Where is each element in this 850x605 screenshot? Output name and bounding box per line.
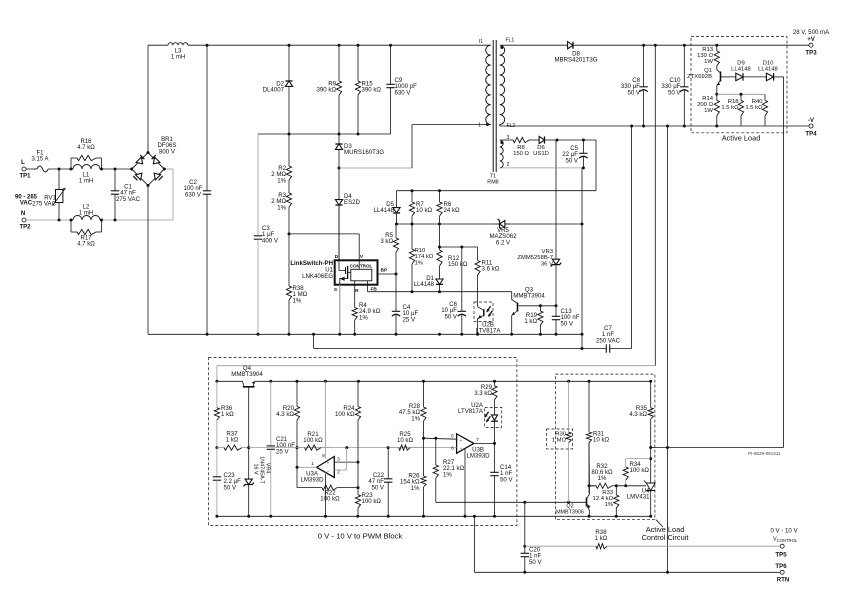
wire bias top to corner bbox=[557, 139, 596, 141]
svg-text:50 V: 50 V bbox=[371, 484, 384, 491]
wire FB line bbox=[368, 291, 512, 293]
label C4 bbox=[403, 304, 419, 323]
svg-text:1 MΩ: 1 MΩ bbox=[552, 438, 567, 444]
svg-text:-V: -V bbox=[808, 117, 815, 124]
wire internal rail left bbox=[217, 380, 243, 382]
svg-text:N: N bbox=[21, 210, 26, 217]
label T1 pin I1 bbox=[479, 39, 483, 45]
optocoupler U2A box bbox=[485, 407, 502, 427]
svg-text:5: 5 bbox=[451, 434, 454, 440]
svg-text:4.3 kΩ: 4.3 kΩ bbox=[276, 411, 294, 418]
svg-text:VR4: VR4 bbox=[265, 463, 271, 474]
resistor R11 bbox=[475, 247, 480, 302]
svg-text:800 V: 800 V bbox=[159, 148, 176, 155]
wire -V line bbox=[500, 125, 811, 127]
wire U3B output bbox=[474, 442, 495, 444]
label C2 bbox=[184, 179, 203, 198]
label U1 ref bbox=[325, 267, 333, 274]
pin label R bbox=[355, 288, 359, 294]
label BR1 bbox=[158, 136, 177, 155]
junction dots clamp line bbox=[288, 133, 360, 136]
svg-text:US1D: US1D bbox=[533, 151, 549, 157]
svg-text:BP: BP bbox=[381, 268, 388, 274]
label input voltage bbox=[15, 195, 38, 207]
svg-text:1: 1 bbox=[311, 461, 314, 467]
svg-text:2: 2 bbox=[507, 162, 510, 168]
svg-text:−: − bbox=[327, 469, 330, 474]
svg-text:10 kΩ: 10 kΩ bbox=[397, 437, 414, 444]
wire Vcontrol line left bbox=[525, 545, 595, 547]
junction R20 bottom bbox=[296, 446, 299, 449]
label R36 bbox=[221, 405, 234, 418]
junction Q1 emitter node bbox=[715, 93, 718, 96]
diode D1 bbox=[436, 278, 443, 292]
branch left vertical L2-R17 bbox=[70, 220, 72, 232]
svg-text:3.15 A: 3.15 A bbox=[31, 157, 48, 163]
svg-text:10 kΩ: 10 kΩ bbox=[416, 207, 433, 214]
resistor R7 bbox=[409, 191, 414, 224]
label R4 bbox=[359, 302, 381, 321]
svg-text:4.7 kΩ: 4.7 kΩ bbox=[77, 242, 95, 248]
resistor R21 bbox=[297, 445, 330, 450]
label R37 bbox=[226, 431, 239, 444]
bridge rectifier BR1 bbox=[132, 153, 165, 186]
label 0-10V bbox=[770, 528, 798, 535]
svg-text:275 VAC: 275 VAC bbox=[32, 201, 57, 208]
svg-text:4.3 kΩ: 4.3 kΩ bbox=[629, 411, 647, 418]
wire L2 left stub bbox=[71, 219, 73, 221]
wire V pin vertical bbox=[358, 234, 360, 260]
label C3 bbox=[262, 225, 279, 244]
label R9 bbox=[317, 81, 337, 94]
label R22 bbox=[320, 490, 340, 503]
label C10 bbox=[661, 77, 681, 96]
svg-text:16 V: 16 V bbox=[253, 463, 259, 474]
label U3A bbox=[300, 471, 324, 484]
wire R32 node line bbox=[589, 485, 596, 487]
svg-text:275 VAC: 275 VAC bbox=[116, 196, 141, 203]
junction dots sense top line bbox=[411, 189, 442, 192]
wire U3B pin5 line bbox=[424, 438, 457, 439]
label R17 bbox=[77, 236, 95, 248]
label VR3 bbox=[517, 249, 553, 267]
svg-text:400 V: 400 V bbox=[262, 237, 279, 244]
branch right vertical R16-L1 bbox=[101, 158, 103, 169]
wire ground to RTN drop bbox=[473, 516, 475, 572]
svg-text:TP6: TP6 bbox=[775, 563, 787, 570]
svg-text:28 V, 500 mA: 28 V, 500 mA bbox=[793, 29, 830, 36]
junction dots +V line bbox=[642, 44, 718, 47]
svg-text:ZTX692B: ZTX692B bbox=[687, 74, 712, 80]
svg-text:7: 7 bbox=[476, 437, 479, 443]
diode D4 bbox=[335, 168, 342, 260]
svg-text:250 VAC: 250 VAC bbox=[596, 337, 621, 344]
wire U1 FB pin drop bbox=[367, 281, 369, 292]
wire pin2 return vertical bbox=[581, 168, 583, 349]
label U3B pin 6 bbox=[451, 446, 454, 452]
wire R6 R12 link bbox=[439, 224, 441, 247]
wire U3A V+ stub bbox=[325, 381, 327, 459]
svg-text:ES2D: ES2D bbox=[344, 199, 361, 206]
label T1 FL2 bbox=[507, 123, 516, 129]
label Vcontrol bbox=[773, 537, 798, 544]
wire R20 to R22 line bbox=[296, 448, 298, 488]
zener VR3 bbox=[551, 255, 561, 306]
svg-text:36 V: 36 V bbox=[541, 261, 553, 267]
label L bbox=[21, 159, 25, 166]
label R10 bbox=[415, 248, 434, 266]
resistor R19 bbox=[538, 306, 543, 335]
test point TP2 bbox=[22, 218, 26, 222]
label D3 bbox=[344, 143, 384, 156]
junction R33 top bbox=[615, 484, 618, 487]
svg-text:6: 6 bbox=[451, 446, 454, 452]
svg-text:CONTROL: CONTROL bbox=[350, 264, 373, 269]
junction R18 top bbox=[740, 93, 743, 96]
diode D8 bbox=[567, 42, 811, 49]
label 28V 500mA bbox=[793, 29, 830, 36]
wire top rail L3 to transformer bbox=[188, 44, 491, 46]
svg-text:1%: 1% bbox=[415, 260, 424, 266]
label CONTROL bbox=[350, 264, 373, 269]
svg-text:3.3 kΩ: 3.3 kΩ bbox=[474, 390, 492, 397]
wire U1 S pin to rail bbox=[339, 285, 341, 335]
wire FB corner to Q3 collector bbox=[511, 292, 513, 300]
junction pin5 tap bbox=[422, 437, 425, 440]
svg-text:1W: 1W bbox=[704, 108, 713, 114]
svg-text:LTV817A: LTV817A bbox=[476, 328, 502, 335]
label U1 part bbox=[302, 273, 333, 280]
svg-text:1: 1 bbox=[478, 123, 481, 129]
label U3A pin 3 bbox=[337, 457, 340, 463]
optocoupler U2B box bbox=[474, 302, 493, 322]
svg-text:8: 8 bbox=[322, 453, 325, 459]
resistor R30 optional box bbox=[547, 429, 573, 449]
label U1 family bbox=[290, 260, 333, 267]
label TP5 bbox=[775, 552, 787, 559]
wire stub bridge right bbox=[164, 168, 173, 170]
label R12 bbox=[448, 255, 468, 268]
label C7 bbox=[596, 325, 621, 344]
label Active Load bbox=[722, 134, 761, 143]
wire hysteresis link bbox=[357, 462, 359, 488]
svg-text:1%: 1% bbox=[604, 502, 613, 508]
svg-text:150 Ω: 150 Ω bbox=[513, 151, 529, 157]
transistor Q2 bbox=[587, 494, 591, 511]
wire fuse to node bbox=[50, 168, 71, 170]
svg-text:100 kΩ: 100 kΩ bbox=[362, 498, 382, 505]
svg-text:50 V: 50 V bbox=[224, 484, 237, 491]
junction N-line RV1 bbox=[58, 219, 61, 222]
junction dots FB line bbox=[411, 290, 442, 293]
active load control box bbox=[555, 374, 655, 520]
junction dots top rail bbox=[206, 44, 393, 47]
capacitor C14 bbox=[490, 443, 498, 516]
svg-text:1%: 1% bbox=[277, 177, 286, 184]
resistor R38 primary bbox=[286, 234, 291, 334]
branch right vertical L2-R17 bbox=[101, 220, 103, 232]
wire L1 right stub bbox=[100, 168, 102, 170]
label Q3 bbox=[513, 287, 545, 300]
capacitor C21 bbox=[267, 381, 275, 516]
svg-text:3.6 kΩ: 3.6 kΩ bbox=[482, 266, 500, 273]
transistor Q4 bbox=[243, 381, 255, 392]
wire U1 D pin bbox=[338, 205, 340, 260]
wire U4 cathode bbox=[650, 448, 652, 484]
svg-text:50 V: 50 V bbox=[500, 476, 513, 483]
resistor R18 bbox=[738, 94, 743, 126]
svg-text:F1: F1 bbox=[36, 151, 44, 157]
svg-text:24 kΩ: 24 kΩ bbox=[444, 207, 461, 214]
wire Q1 emitter bbox=[716, 86, 718, 95]
junction dots -V line bbox=[630, 125, 718, 128]
wire R11 top line bbox=[440, 246, 478, 248]
label R38 primary bbox=[293, 285, 308, 304]
wire FL2 to primary bbox=[412, 124, 491, 126]
junction R23 top bbox=[357, 486, 360, 489]
junction dots base line bbox=[523, 501, 570, 504]
svg-text:LTV817A: LTV817A bbox=[458, 408, 484, 415]
svg-text:390 kΩ: 390 kΩ bbox=[317, 87, 337, 94]
svg-text:RM8: RM8 bbox=[487, 180, 498, 186]
wire U3A pin2 line bbox=[334, 469, 346, 471]
svg-text:1 mH: 1 mH bbox=[171, 55, 185, 61]
junction dots L2 branch bbox=[70, 219, 104, 222]
label R30 bbox=[552, 432, 567, 444]
wire Q2 collector bbox=[588, 443, 591, 495]
svg-text:TP2: TP2 bbox=[19, 225, 31, 231]
label C13 bbox=[561, 308, 580, 327]
junction L-line RV1 bbox=[58, 168, 61, 171]
label R27 bbox=[443, 459, 465, 478]
label TP3 bbox=[805, 50, 817, 57]
resistor R32 bbox=[589, 483, 616, 488]
svg-text:50 V: 50 V bbox=[565, 157, 578, 164]
label R3 bbox=[271, 192, 286, 211]
svg-text:ZMM5258B-7: ZMM5258B-7 bbox=[517, 255, 553, 261]
test point TP4 bbox=[809, 124, 813, 128]
resistor R25 bbox=[388, 445, 423, 450]
wire R27 bottom line bbox=[436, 501, 587, 503]
capacitor C8 bbox=[639, 45, 647, 126]
wire RTN line bbox=[474, 571, 780, 573]
label U3B pin 7 bbox=[476, 437, 479, 443]
label U4 bbox=[627, 488, 650, 501]
label R31 bbox=[593, 431, 610, 444]
label D10 bbox=[758, 61, 778, 73]
capacitor C1 bbox=[111, 169, 119, 220]
label R14 bbox=[697, 96, 714, 114]
resistor R30 bbox=[566, 381, 571, 502]
junction C5 bottom bbox=[582, 166, 585, 169]
wire R32 line to U4 ref bbox=[616, 485, 646, 487]
wire bias corner down bbox=[595, 140, 597, 191]
svg-text:100 kΩ: 100 kΩ bbox=[630, 467, 650, 474]
label R8 bbox=[513, 145, 529, 157]
label R40 bbox=[745, 99, 763, 111]
label R25 bbox=[397, 431, 414, 444]
transformer T1 core bbox=[493, 40, 496, 172]
wire FL2 pin stub bbox=[499, 125, 501, 127]
svg-text:MBRS4201T3G: MBRS4201T3G bbox=[554, 57, 597, 64]
varistor RV1 bbox=[53, 169, 66, 220]
wire Q2 emitter bbox=[588, 511, 591, 517]
pin label V bbox=[360, 254, 364, 260]
svg-text:TP1: TP1 bbox=[19, 174, 31, 180]
svg-text:1%: 1% bbox=[293, 297, 302, 304]
capacitor C13 bbox=[552, 306, 560, 335]
label D8 bbox=[554, 51, 597, 64]
svg-text:LL4148: LL4148 bbox=[374, 207, 395, 214]
svg-text:1.5 kΩ: 1.5 kΩ bbox=[745, 105, 763, 111]
junction BP node bbox=[395, 273, 398, 276]
wire L2 right stub bbox=[100, 219, 102, 221]
wire D10 to control drop bbox=[783, 77, 785, 448]
svg-text:1 kΩ: 1 kΩ bbox=[221, 411, 234, 418]
inductor L3 bbox=[168, 43, 188, 46]
test point TP3 bbox=[809, 43, 813, 47]
svg-text:VR3: VR3 bbox=[542, 249, 554, 255]
wire primary return rail bbox=[148, 333, 582, 335]
svg-text:50 V: 50 V bbox=[668, 89, 681, 96]
svg-text:1.5 kΩ: 1.5 kΩ bbox=[721, 105, 739, 111]
wire internal ground rail bbox=[217, 515, 651, 517]
label T1 pin 2 bbox=[507, 162, 510, 168]
svg-text:VCONTROL: VCONTROL bbox=[773, 537, 798, 544]
label RV1 bbox=[32, 195, 57, 208]
junction dots control line bbox=[345, 446, 389, 449]
junction R37 left bbox=[215, 446, 218, 449]
junction C1 top bbox=[114, 168, 117, 171]
label Q1 bbox=[687, 68, 712, 80]
label R6 bbox=[444, 201, 461, 214]
wire L1 left stub bbox=[71, 168, 73, 170]
svg-text:+: + bbox=[460, 438, 463, 443]
label VR4 volt bbox=[253, 463, 259, 474]
label U2B bbox=[476, 322, 502, 335]
resistor R24 bbox=[355, 381, 360, 462]
junction C20 bottom bbox=[523, 571, 526, 574]
pin label S bbox=[334, 287, 338, 293]
label T1 pin 1 bbox=[478, 123, 481, 129]
label U2A bbox=[458, 402, 484, 415]
label R11 bbox=[482, 260, 500, 273]
resistor R34 bbox=[623, 459, 628, 486]
resistor R40 bbox=[762, 94, 767, 126]
label C14 bbox=[500, 464, 513, 483]
inductor L2 bbox=[73, 216, 100, 221]
wire U2A cathode to output bbox=[494, 427, 496, 443]
capacitor C9 bbox=[386, 45, 394, 134]
junction dots bridge vertices bbox=[130, 151, 166, 187]
svg-text:0 V - 10 V to PWM Block: 0 V - 10 V to PWM Block bbox=[318, 532, 403, 541]
pin label BP bbox=[381, 268, 388, 274]
wire PWM supply gray line bbox=[217, 365, 655, 367]
svg-text:LM393D: LM393D bbox=[466, 453, 490, 460]
label R15 bbox=[362, 81, 382, 94]
resistor R20 bbox=[294, 381, 299, 447]
wire clamp node line bbox=[258, 133, 391, 135]
junction T1 FL1 dot bbox=[500, 46, 503, 49]
wire control drop bbox=[524, 502, 526, 546]
svg-text:50 V: 50 V bbox=[561, 320, 574, 327]
svg-text:R16: R16 bbox=[80, 139, 92, 145]
test point TP6 bbox=[780, 570, 784, 574]
wire bias sense top line bbox=[397, 190, 597, 192]
resistor R5 bbox=[393, 224, 398, 274]
label D1 bbox=[414, 275, 435, 288]
svg-text:MMBT3904: MMBT3904 bbox=[513, 293, 545, 300]
label R29 bbox=[474, 384, 492, 397]
svg-text:4.7 kΩ: 4.7 kΩ bbox=[77, 145, 95, 151]
resistor R14 bbox=[714, 94, 719, 126]
diode D9 bbox=[736, 73, 767, 81]
svg-text:DL4007: DL4007 bbox=[263, 87, 285, 94]
label PI number bbox=[748, 451, 781, 456]
capacitor C5 bbox=[579, 140, 587, 168]
label R33 bbox=[593, 490, 614, 508]
transformer T1 bias winding bbox=[500, 140, 503, 168]
label R20 bbox=[276, 405, 294, 418]
wire -V drop to RTN bbox=[667, 448, 669, 573]
zener VR5 bbox=[495, 219, 510, 229]
pin label FB bbox=[371, 287, 378, 293]
svg-text:R: R bbox=[355, 288, 359, 294]
svg-text:1N4745A-T: 1N4745A-T bbox=[259, 456, 265, 484]
svg-text:D: D bbox=[335, 254, 339, 260]
svg-text:174 kΩ: 174 kΩ bbox=[415, 254, 434, 260]
label C20 bbox=[529, 547, 542, 566]
resistor R37 bbox=[217, 445, 249, 450]
wire U3A output bbox=[297, 466, 317, 468]
junction dots internal ground rail bbox=[215, 515, 652, 518]
svg-text:R8: R8 bbox=[517, 145, 525, 151]
label -V bbox=[808, 117, 815, 124]
junction drain node bbox=[338, 167, 341, 170]
label R26 bbox=[400, 473, 420, 492]
svg-text:630 V: 630 V bbox=[395, 89, 412, 96]
resistor R38 bbox=[595, 544, 609, 549]
label Q4 bbox=[231, 365, 263, 378]
diode D10 bbox=[766, 73, 783, 81]
resistor R29 bbox=[492, 381, 497, 407]
svg-text:LL4148: LL4148 bbox=[414, 281, 435, 288]
label R7 bbox=[416, 201, 433, 214]
label C22 bbox=[368, 472, 385, 491]
junction R34 bottom bbox=[624, 484, 627, 487]
wire Q3 base line bbox=[519, 305, 557, 307]
label +V bbox=[807, 36, 816, 43]
label VR4 part bbox=[259, 456, 265, 484]
resistor R36 bbox=[214, 381, 219, 447]
junction T1 pin1 dot bbox=[486, 123, 489, 126]
svg-text:25 V: 25 V bbox=[403, 316, 416, 323]
label U3A pin 2 bbox=[337, 470, 340, 476]
resistor R26 bbox=[421, 448, 426, 517]
resistor R2 bbox=[286, 134, 291, 187]
wire +V drop to PWM supply bbox=[654, 45, 656, 366]
label C6 bbox=[441, 301, 458, 320]
label Active Load Control Circuit bbox=[642, 525, 689, 542]
resistor R4 bbox=[352, 281, 357, 335]
svg-text:1%: 1% bbox=[411, 485, 420, 492]
wire N to bridge right vertex bbox=[172, 169, 174, 220]
junction pin3 node bbox=[357, 461, 360, 464]
svg-text:TP4: TP4 bbox=[805, 131, 817, 138]
wire U3A pin3 line bbox=[334, 461, 358, 463]
label D9 bbox=[731, 61, 751, 73]
svg-text:100 kΩ: 100 kΩ bbox=[320, 496, 340, 503]
